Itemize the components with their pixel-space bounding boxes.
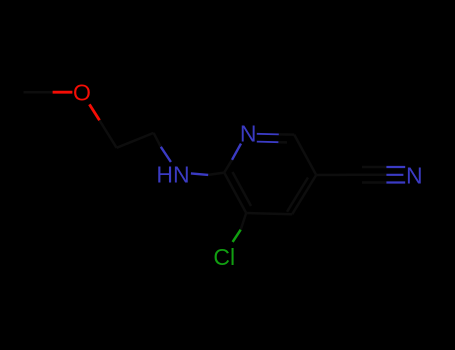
svg-text:O: O xyxy=(73,80,91,106)
wire N1-C6 nitrogen half xyxy=(232,144,241,160)
wire CH2a-CH2b xyxy=(117,133,154,148)
wire nitrile triple bond nitrogen halves xyxy=(386,166,405,168)
wire NH-C6 nitrogen half xyxy=(191,173,208,175)
dark carbon skeleton (nearly invisible on black) xyxy=(24,92,387,230)
wire ring C6-N1 carbon half xyxy=(224,160,232,173)
svg-text:Cl: Cl xyxy=(213,244,235,270)
wire CH2b-NH carbon half xyxy=(154,133,161,147)
svg-text:HN: HN xyxy=(156,162,189,188)
wire C5-Cl carbon half xyxy=(241,213,247,230)
wire CH3-O carbon half xyxy=(24,91,53,94)
wire O-CH2a oxygen half xyxy=(89,104,99,120)
wire NH-C6 carbon half xyxy=(208,173,224,175)
wire ring N1=C2 carbon half xyxy=(279,133,294,136)
wire CH2b-NH nitrogen half xyxy=(161,147,171,162)
wire CH3-O oxygen half xyxy=(53,91,73,94)
svg-text:N: N xyxy=(240,121,257,147)
wire O-CH2a carbon half xyxy=(100,120,117,148)
green Cl half-bond xyxy=(233,230,241,242)
blue N half-bonds xyxy=(161,134,405,183)
wire ring C4-C5 xyxy=(246,213,292,214)
red O half-bonds xyxy=(53,92,100,120)
svg-text:N: N xyxy=(406,162,423,188)
wire C3-C(nitrile) xyxy=(316,174,359,177)
wire ring C2-C3 xyxy=(294,135,316,175)
wire ring C3-C4 xyxy=(292,175,316,214)
wire N1=C2 nitrogen halves (double bond) xyxy=(257,133,279,136)
wire ring C5-C6 xyxy=(224,173,246,213)
wire nitrile carbon halves xyxy=(362,166,386,169)
